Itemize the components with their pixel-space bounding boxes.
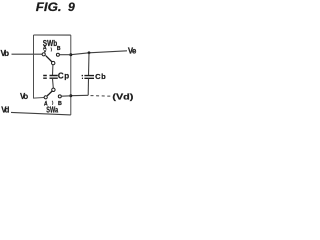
terminal B circle SWb [56, 53, 59, 56]
arrow caret A (SWa) [45, 100, 47, 102]
wiper arm SWb [46, 56, 52, 62]
svg-text:9: 9 [68, 0, 75, 14]
capacitor Cp [52, 65, 54, 75]
node junction rail/Ve [69, 53, 72, 56]
node junction rail bottom [69, 94, 72, 97]
capacitor Cb [88, 53, 91, 75]
arc wiper travel SWb [50, 48, 53, 52]
svg-text:Cb: Cb [95, 72, 106, 81]
common circle SWb [52, 61, 55, 64]
svg-text:Vo: Vo [20, 92, 28, 101]
svg-text:A: A [43, 45, 47, 51]
arrow caret A (SWb) [44, 50, 47, 53]
common circle SWa [52, 88, 55, 91]
wire Vb to SWb A [12, 53, 43, 55]
wiper arm SWa [47, 91, 52, 96]
terminal B circle SWa [58, 95, 61, 98]
wire right rail [70, 35, 72, 115]
svg-text:FIG.: FIG. [36, 0, 62, 14]
terminal A circle SWb [42, 53, 45, 56]
svg-text:(Vd): (Vd) [112, 93, 133, 102]
wire Vd bottom [11, 112, 71, 115]
arrowhead SWb arm [45, 55, 47, 57]
svg-text:SWa: SWa [46, 105, 58, 114]
wire top rail [34, 34, 71, 36]
svg-text:Cp: Cp [58, 71, 70, 80]
wire SWa B to rail [61, 95, 70, 97]
wire SWb B to rail [60, 54, 71, 56]
wire Ve output [71, 51, 127, 55]
svg-text:Ve: Ve [128, 47, 137, 56]
svg-text:B: B [57, 46, 61, 52]
terminal A circle SWa [44, 96, 47, 99]
arrowhead SWa arm [47, 94, 49, 96]
wire Vo riser (left vertical with corners) [34, 35, 45, 98]
svg-text:Vd: Vd [1, 106, 9, 115]
arc wiper travel SWa [51, 101, 54, 105]
svg-text:Vb: Vb [1, 49, 10, 58]
wire bottom link rail to Cb [71, 94, 88, 96]
wire dashed (Vd) node [91, 95, 112, 98]
svg-text:B: B [58, 101, 62, 107]
node junction Cb top [88, 51, 91, 54]
